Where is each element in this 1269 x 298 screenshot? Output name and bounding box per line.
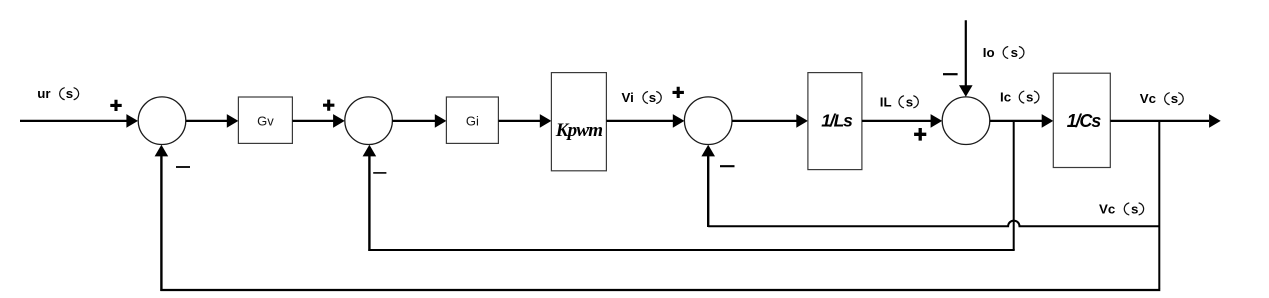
svg-text:Vc: Vc <box>1140 91 1156 106</box>
svg-text:s: s <box>906 94 913 109</box>
svg-text:Gv: Gv <box>257 113 274 128</box>
wire Ic feedback rise into S2 <box>363 145 377 251</box>
wire S1 to Gv <box>186 114 239 128</box>
block 1/Cs <box>1053 73 1110 167</box>
plus sign at summing junction S4 <box>914 128 926 141</box>
minus sign S3 feedback <box>720 165 735 167</box>
summing junction S4 <box>942 97 990 145</box>
summing junction S3 <box>684 97 732 145</box>
minus sign S2 feedback <box>373 172 386 174</box>
node IL(s) label <box>880 94 919 109</box>
svg-text:Io: Io <box>983 45 995 60</box>
wire outer feedback horizontal y=290 <box>160 289 1160 291</box>
wire S2 to Gi <box>392 114 446 128</box>
svg-text:s: s <box>66 86 73 101</box>
wire Vc inner feedback horizontal y=226 with hop <box>708 221 1159 227</box>
wire Vc feedback drop at x=1159 <box>1158 121 1160 289</box>
wire Ic feedback horizontal y=251 <box>368 249 1014 251</box>
wire Kpwm to S3 <box>606 114 684 128</box>
summing junction S2 <box>345 97 393 145</box>
minus sign Io <box>943 73 958 75</box>
svg-text:IL: IL <box>880 94 892 109</box>
block Gv <box>238 97 292 143</box>
svg-text:Ic: Ic <box>1000 90 1011 105</box>
plus sign at summing junction S2 <box>323 100 334 111</box>
node Vc(s) feedback label <box>1099 201 1144 216</box>
wire outer feedback rise into S1 <box>155 145 169 291</box>
svg-text:Vc: Vc <box>1099 201 1115 216</box>
svg-text:s: s <box>649 90 656 105</box>
node Ic(s) label <box>1000 90 1039 105</box>
wire S4 to 1/Cs <box>990 114 1054 128</box>
wire input to S1 <box>20 114 138 128</box>
block Gi <box>446 97 498 143</box>
svg-text:Vi: Vi <box>622 90 634 105</box>
wire Gv to S2 <box>292 114 344 128</box>
block Kpwm <box>551 73 606 171</box>
node Vc(s) output label <box>1140 91 1183 106</box>
svg-text:1/Cs: 1/Cs <box>1067 111 1102 131</box>
block 1/Ls <box>808 73 862 170</box>
wire Gi to Kpwm <box>498 114 551 128</box>
svg-text:s: s <box>1026 90 1033 105</box>
plus sign at summing junction S1 <box>110 100 121 111</box>
svg-text:s: s <box>1011 45 1018 60</box>
minus sign S1 feedback <box>176 166 190 168</box>
summing junction S1 <box>138 97 186 145</box>
node Vi(s) label <box>622 90 662 105</box>
wire Ic feedback drop at x=1014 <box>1013 121 1015 250</box>
node ur(s) input label <box>37 86 78 101</box>
wire 1/Ls to S4 <box>862 114 942 128</box>
svg-text:1/Ls: 1/Ls <box>821 111 853 131</box>
node Io(s) label <box>983 45 1024 60</box>
svg-text:s: s <box>1131 201 1138 216</box>
svg-text:Gi: Gi <box>466 113 479 128</box>
wire 1/Cs to output <box>1110 114 1220 128</box>
plus sign at summing junction S3 <box>673 87 684 98</box>
wire Io input <box>959 20 973 97</box>
wire Vc inner feedback rise into S3 <box>701 145 715 227</box>
wire S3 to 1/Ls <box>732 114 808 128</box>
svg-text:s: s <box>1171 91 1178 106</box>
svg-text:ur: ur <box>37 86 50 101</box>
svg-text:Kpwm: Kpwm <box>555 120 602 141</box>
